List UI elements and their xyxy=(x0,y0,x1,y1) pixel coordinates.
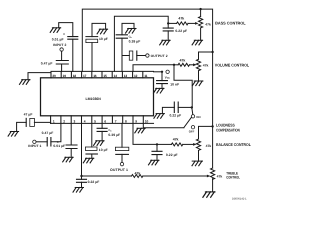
wire pin12 riser to volume feed xyxy=(133,65,174,72)
svg-text:20: 20 xyxy=(52,74,56,78)
capacitor 0.01uF (pin 3) xyxy=(66,145,77,149)
svg-text:BASS CONTROL: BASS CONTROL xyxy=(215,21,246,26)
svg-text:16: 16 xyxy=(93,74,97,78)
svg-text:47k: 47k xyxy=(173,137,179,141)
wire balance pot to ground xyxy=(198,151,200,162)
svg-text:CONTROL: CONTROL xyxy=(226,176,240,180)
wire dot to ON contact xyxy=(192,108,193,115)
svg-text:12: 12 xyxy=(134,74,138,78)
capacitor 0.22uF (treble) xyxy=(81,176,83,179)
svg-text:47 µF: 47 µF xyxy=(24,113,33,117)
wire resistor to arrow xyxy=(190,64,194,66)
node dot on right rail (balance pot tap) xyxy=(211,125,213,127)
svg-text:OFF: OFF xyxy=(189,129,195,133)
ground (treble pot) xyxy=(203,192,215,197)
svg-text:INPUT 1: INPUT 1 xyxy=(28,144,41,148)
potentiometer 47k (treble control) xyxy=(211,168,215,179)
IC top pin row xyxy=(51,71,154,77)
wire input2 to cap xyxy=(61,51,63,60)
wiper arrow (treble pot) xyxy=(207,175,211,178)
svg-text:10: 10 xyxy=(145,119,149,123)
wiper arrow (balance pot) xyxy=(193,143,197,146)
capacitor 0.22uF (balance) xyxy=(156,144,158,151)
node dot bass junction xyxy=(167,22,169,24)
ground (pin 10) xyxy=(135,128,146,133)
svg-text:0.39 µF: 0.39 µF xyxy=(129,39,141,43)
wire Cb top to ground xyxy=(122,23,134,34)
capacitor 0.22uF (loudness) xyxy=(174,102,178,113)
wire pin9 riser to balance feed xyxy=(133,123,157,144)
capacitor 10uF electrolytic (pin 5) xyxy=(85,147,97,154)
wire pin11 to Vcc terminal xyxy=(154,71,163,73)
ground (loudness cap) xyxy=(154,114,165,119)
svg-text:15: 15 xyxy=(103,74,107,78)
wire junction to resistor xyxy=(82,175,132,177)
wire pin13 to output cap xyxy=(122,55,129,57)
capacitor 0.47uF (input 2) xyxy=(56,61,68,65)
wire pin13 riser xyxy=(121,38,123,71)
resistor 47k (balance) xyxy=(171,143,182,146)
wire switch arm xyxy=(184,117,192,127)
node VCC terminal xyxy=(166,70,169,73)
node dot balance junction xyxy=(156,143,158,145)
svg-text:13: 13 xyxy=(124,74,128,78)
wire junction to resistor xyxy=(157,143,171,145)
wire resistor to arrow xyxy=(183,143,193,145)
svg-text:10 µF: 10 µF xyxy=(99,37,108,41)
svg-text:INPUT 2: INPUT 2 xyxy=(53,43,66,47)
capacitor 0.01uF (pin 18) xyxy=(68,37,78,40)
ground (0.39uF pin 6) xyxy=(94,141,105,146)
svg-text:0.22 µF: 0.22 µF xyxy=(175,29,187,33)
capacitor 0.39uF Cb (pin 13 top) xyxy=(116,35,127,38)
svg-text:ON: ON xyxy=(196,115,200,119)
potentiometer 47k (balance control) xyxy=(199,126,213,139)
capacitor 0.39uF Cb (pin 6) xyxy=(97,128,107,131)
svg-text:0.22 µF: 0.22 µF xyxy=(88,180,100,184)
ground (10uF pin 5) xyxy=(83,158,94,163)
node dot Vcc xyxy=(161,71,163,73)
ground (0.01uF pin 3) xyxy=(63,157,73,162)
wire pin18 riser xyxy=(72,39,74,71)
wire pin8 riser (output 1) xyxy=(121,123,123,147)
node dot treble junction xyxy=(80,175,82,177)
wire cap to ground xyxy=(167,31,169,40)
ground (0.22uF treble) xyxy=(73,188,84,193)
wiper arrow (bass pot) xyxy=(195,22,199,25)
wire pin10 riser xyxy=(142,123,144,127)
svg-text:47k: 47k xyxy=(178,16,184,20)
wire cap to pin19 xyxy=(61,64,63,71)
svg-text:LM1036N: LM1036N xyxy=(86,97,102,101)
wire loudness cap left to ground xyxy=(162,107,174,113)
resistor 47k (bass) xyxy=(177,22,188,25)
node dot on right rail (volume pot tap) xyxy=(211,51,213,53)
capacitor 10uF electrolytic (output 2) xyxy=(129,51,137,60)
wire cap to ground xyxy=(70,149,72,158)
svg-text:C: C xyxy=(63,33,65,36)
wire cap to ground xyxy=(161,84,163,89)
svg-text:OUTPUT 1: OUTPUT 1 xyxy=(110,168,128,172)
svg-text:47k: 47k xyxy=(217,175,223,179)
svg-text:VOLUME CONTROL: VOLUME CONTROL xyxy=(215,62,250,67)
svg-text:10 nF: 10 nF xyxy=(170,83,179,87)
capacitor 0.22uF (bass) xyxy=(167,23,169,28)
svg-text:14: 14 xyxy=(114,74,118,78)
wire treble pot to ground xyxy=(212,179,214,192)
wire loudness cap right to switch xyxy=(178,106,192,108)
svg-text:0.47 µF: 0.47 µF xyxy=(42,131,54,135)
ground (0.22uF bass) xyxy=(160,40,171,45)
wire pin6 riser xyxy=(101,123,103,128)
wire cap to ground xyxy=(91,154,93,158)
resistor 47k (treble) xyxy=(132,175,143,178)
svg-text:OUTPUT 2: OUTPUT 2 xyxy=(151,54,168,58)
svg-text:47k: 47k xyxy=(135,172,141,176)
potentiometer 47k (volume control) xyxy=(199,52,213,59)
svg-text:0.22 µF: 0.22 µF xyxy=(170,113,182,117)
wire volume junction jog to loudness switch xyxy=(174,65,192,108)
capacitor 47uF electrolytic (pin 1) xyxy=(26,118,34,126)
wire pin16 riser xyxy=(91,43,93,72)
svg-text:0.39 µF: 0.39 µF xyxy=(108,133,120,137)
wire cap to ground xyxy=(156,155,158,161)
svg-text:DS005142-1: DS005142-1 xyxy=(232,198,247,200)
node INPUT 1 terminal xyxy=(33,140,36,143)
ground (0.22uF balance) xyxy=(149,160,160,165)
svg-text:0.22 µF: 0.22 µF xyxy=(166,153,178,157)
pin numbers 1-10 xyxy=(53,119,149,123)
ground (47uF) xyxy=(8,132,19,137)
ground (balance pot) xyxy=(192,161,203,166)
wire cap to output 2 terminal xyxy=(137,55,146,57)
wire pin5 riser xyxy=(91,123,93,147)
node dot loudness xyxy=(191,106,193,108)
node dot volume junction xyxy=(173,64,175,66)
svg-text:47k: 47k xyxy=(203,64,209,68)
svg-text:47k: 47k xyxy=(206,144,212,148)
svg-text:BALANCE CONTROL: BALANCE CONTROL xyxy=(216,142,251,147)
wire resistor to arrow xyxy=(188,22,195,24)
capacitor 10uF electrolytic (output 1) xyxy=(115,147,128,154)
svg-text:47k: 47k xyxy=(180,58,186,62)
wire volume pot to ground xyxy=(198,71,200,81)
node switch OFF contact xyxy=(191,126,194,129)
potentiometer 47k (bass control) xyxy=(200,9,202,16)
wire 10uF top to ground xyxy=(92,23,106,36)
svg-text:0.47 µF: 0.47 µF xyxy=(41,61,53,65)
ground (Cb top) xyxy=(126,29,136,34)
wire cap to pin1 xyxy=(34,122,50,123)
ground (pin 20) xyxy=(20,80,31,85)
wire pin17 riser to top rail and right rail xyxy=(82,9,212,168)
ground (10uF pin 16) xyxy=(97,29,108,34)
svg-text:47k: 47k xyxy=(205,23,211,27)
svg-text:11: 11 xyxy=(144,74,147,78)
svg-text:17: 17 xyxy=(83,74,87,78)
wire pin20 to ground xyxy=(28,73,51,80)
svg-text:0.01 µF: 0.01 µF xyxy=(53,144,65,148)
node OUTPUT 1 terminal xyxy=(120,162,123,165)
wire cap to ground xyxy=(81,182,83,187)
resistor 47k (volume) xyxy=(178,63,189,66)
wire bass pot to ground xyxy=(200,28,202,40)
svg-text:0.01 µF: 0.01 µF xyxy=(52,38,64,42)
svg-text:COMPENSATION: COMPENSATION xyxy=(216,127,240,132)
svg-text:10 µF: 10 µF xyxy=(99,148,108,152)
node INPUT 2 terminal xyxy=(60,48,63,51)
svg-text:18: 18 xyxy=(73,74,77,78)
wire pin3 riser xyxy=(70,123,72,145)
wire input1 to cap xyxy=(36,141,47,143)
capacitor 0.47uF (input 1) xyxy=(47,138,51,146)
ground (bass pot) xyxy=(192,40,203,45)
wire junction to resistor xyxy=(174,64,178,66)
wire junction to resistor xyxy=(168,22,176,24)
ground (volume pot) xyxy=(192,81,203,86)
wire cap to ground xyxy=(101,131,103,140)
node OUTPUT 2 terminal xyxy=(146,54,149,57)
node switch ON contact xyxy=(191,115,194,118)
node dot on top rail (bass pot) xyxy=(199,8,201,10)
wire cap to pin2 xyxy=(51,123,61,141)
op-amp U1 LM1036N IC body xyxy=(41,78,154,116)
svg-text:19: 19 xyxy=(63,74,67,78)
capacitor 10nF (Vcc) xyxy=(157,81,168,84)
wire resistor to arrow xyxy=(143,175,207,177)
wire cap left to ground xyxy=(17,122,27,131)
IC bottom pin row xyxy=(51,116,154,124)
pin numbers 20-11 xyxy=(52,74,147,78)
wire cap to output 1 terminal xyxy=(121,154,123,162)
wire switch common from pin10 ground xyxy=(143,127,184,129)
capacitor 10uF electrolytic (pin 16) xyxy=(86,37,98,43)
wire cap up and left to ground xyxy=(59,23,73,37)
wire Vcc dot to cap xyxy=(161,72,163,81)
ground (10nF) xyxy=(154,88,165,93)
ground (0.01uF pin 18) xyxy=(50,28,61,33)
wiper arrow (volume pot) xyxy=(193,63,197,66)
wire pin14 riser to bass feed xyxy=(114,16,168,71)
wire pin4 riser to treble feed xyxy=(81,123,83,176)
